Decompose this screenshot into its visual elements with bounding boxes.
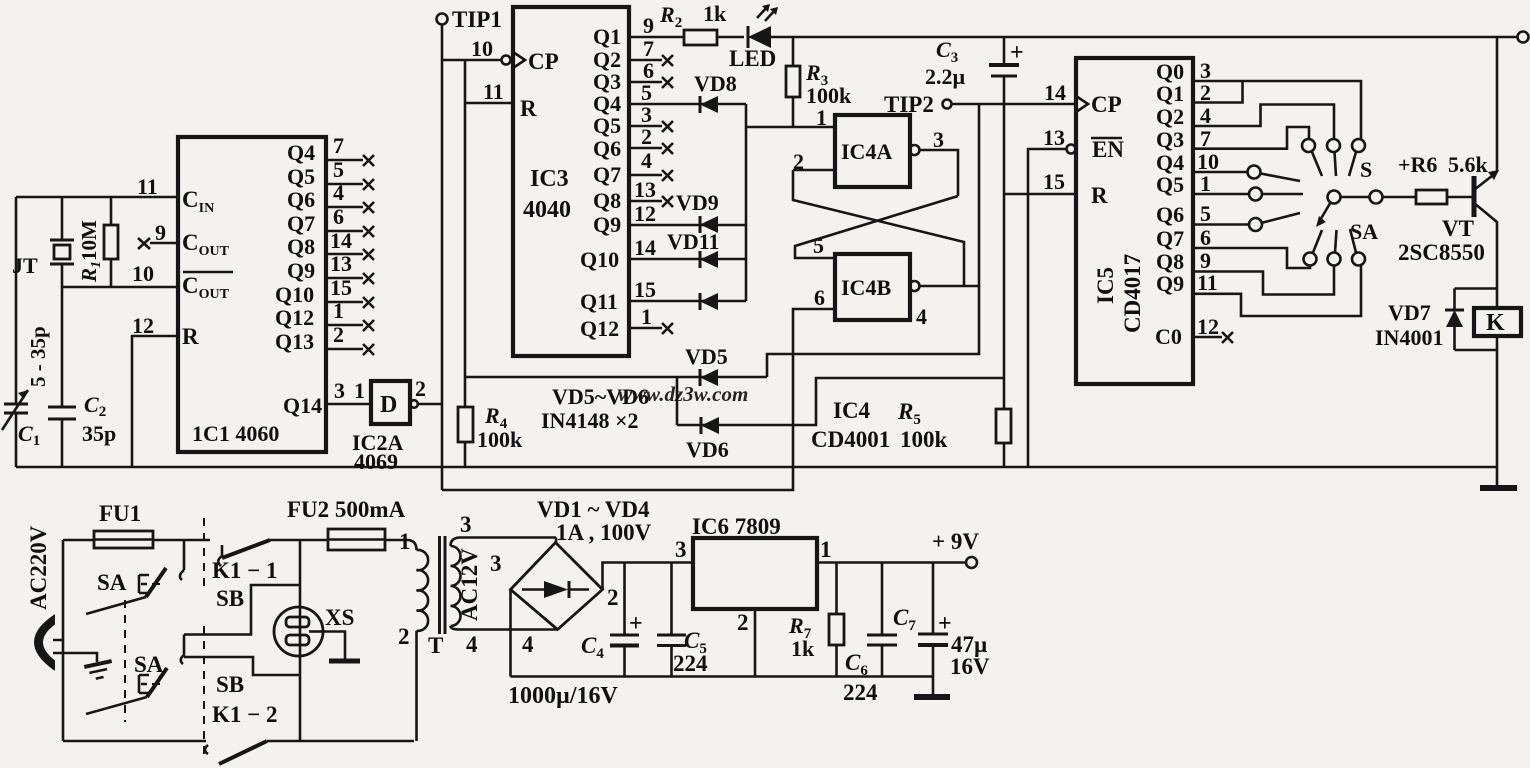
svg-text:JT: JT <box>12 253 38 278</box>
stub Q5 unconnected <box>629 125 662 128</box>
wire: Q4 pin10 to left contact 1 <box>1193 171 1247 174</box>
svg-text:Q6: Q6 <box>287 187 315 212</box>
diode VD6 <box>676 377 679 425</box>
wire: +9V top rail from LED to right terminal <box>771 36 1517 39</box>
svg-text:12: 12 <box>132 313 154 338</box>
svg-text:100k: 100k <box>900 427 948 452</box>
wire: pin 10 wire from JT/R1 to IC1 <box>62 286 178 289</box>
svg-text:S: S <box>1360 157 1372 182</box>
svg-text:Q13: Q13 <box>275 329 314 354</box>
wire: IC4A output to crossover <box>918 150 958 196</box>
wire: Q1 pin2 stub <box>1193 81 1243 103</box>
wire: Q3 pin7 to top-left contact <box>1193 127 1309 149</box>
wire: TIP1 vertical line down <box>441 25 444 490</box>
svg-text:C4: C4 <box>581 633 604 662</box>
svg-text:CIN: CIN <box>182 187 214 216</box>
diode VD8 on Q4 output <box>629 103 746 106</box>
wire: reset net vertical from CP wire down to VD5 line <box>464 60 467 407</box>
svg-text:Q14: Q14 <box>283 393 322 418</box>
svg-text:3: 3 <box>933 127 944 152</box>
svg-text:11: 11 <box>1197 270 1218 295</box>
wire: R pin 15 from C3/R5 node <box>1004 193 1076 196</box>
svg-text:2: 2 <box>333 322 344 347</box>
resistor R1 (10M) <box>104 197 118 287</box>
resistor R5 100k <box>1003 378 1006 409</box>
svg-text:COUT: COUT <box>182 230 230 259</box>
svg-text:1k: 1k <box>791 636 815 661</box>
NOR gate IC4A <box>835 115 910 187</box>
wire: Q14 to IC2A input <box>326 403 371 406</box>
svg-text:4: 4 <box>1200 103 1211 128</box>
power ground rail <box>511 675 934 678</box>
terminal +9V <box>966 557 977 568</box>
svg-text:9: 9 <box>643 13 654 38</box>
IC5 output labels Q0..Q9, C0 <box>1155 58 1219 349</box>
svg-text:IC4A: IC4A <box>841 139 892 164</box>
mechanical link K1/SB (dashed) <box>203 518 205 588</box>
svg-text:Q12: Q12 <box>275 305 314 330</box>
earth connection of plug <box>63 653 97 662</box>
LED light emission arrows <box>757 6 776 21</box>
stub Q2 unconnected <box>629 59 662 62</box>
svg-text:VD8: VD8 <box>694 71 737 96</box>
svg-text:12: 12 <box>1197 314 1219 339</box>
transformer core <box>440 536 446 634</box>
svg-text:C6: C6 <box>845 650 868 679</box>
NOR gate IC4B <box>835 254 910 320</box>
relay contact K1-1 <box>218 556 222 566</box>
IC5 CD4017 body <box>1076 58 1193 384</box>
diode on Q11 output <box>629 300 746 303</box>
svg-text:Q10: Q10 <box>275 282 314 307</box>
wire: IC6 pin2 to ground rail <box>754 609 757 677</box>
svg-text:IN4001: IN4001 <box>1375 325 1443 350</box>
svg-text:224: 224 <box>673 651 708 676</box>
wire: TIP1 line to IC3 CP <box>442 59 501 62</box>
svg-text:IC4B: IC4B <box>841 275 891 300</box>
svg-text:C0: C0 <box>1155 324 1182 349</box>
svg-text:FU2 500mA: FU2 500mA <box>287 497 406 522</box>
svg-text:AC12V: AC12V <box>457 548 482 621</box>
svg-text:+: + <box>629 611 643 637</box>
svg-text:100k: 100k <box>477 427 523 452</box>
ground (relay) <box>1496 467 1499 487</box>
svg-text:VD6: VD6 <box>686 437 729 462</box>
svg-text:C2: C2 <box>84 392 106 420</box>
regulator IC6 7809 <box>693 538 817 609</box>
diode VD7 IN4001 across relay <box>1445 289 1497 351</box>
fuse FU1 <box>63 539 94 542</box>
svg-text:4069: 4069 <box>354 449 398 474</box>
svg-text:IC3: IC3 <box>530 166 569 192</box>
IC3 output pin labels Q1..Q12 <box>580 13 656 341</box>
IC1 outputs Q4..Q13 with pin numbers and x marks <box>275 133 374 355</box>
svg-text:1: 1 <box>816 105 827 130</box>
svg-text:2: 2 <box>607 585 619 610</box>
svg-text:R110M: R110M <box>77 220 104 283</box>
svg-text:+: + <box>1010 40 1024 66</box>
svg-text:4040: 4040 <box>523 197 571 223</box>
svg-text:IC5: IC5 <box>1093 267 1118 304</box>
relay K coil <box>1474 308 1521 336</box>
svg-text:1000µ/16V: 1000µ/16V <box>508 683 618 709</box>
LED <box>717 36 744 39</box>
wire: left vertical rail of oscillator loop <box>15 197 18 467</box>
svg-text:4: 4 <box>522 632 534 657</box>
svg-text:1: 1 <box>333 298 344 323</box>
svg-text:2: 2 <box>415 376 426 401</box>
svg-text:R5: R5 <box>897 399 921 428</box>
svg-text:D: D <box>380 392 397 418</box>
svg-text:Q7: Q7 <box>287 211 315 236</box>
svg-text:11: 11 <box>483 79 504 104</box>
wire: bridge minus to power ground rail <box>509 590 512 677</box>
svg-text:Q5: Q5 <box>287 164 315 189</box>
svg-text:4: 4 <box>641 148 652 173</box>
wire: pin 11 R of IC3 <box>465 102 513 105</box>
svg-text:IC4: IC4 <box>833 398 871 423</box>
svg-text:IN4148 ×2: IN4148 ×2 <box>541 408 639 433</box>
svg-text:+ 9V: + 9V <box>932 529 979 554</box>
wire: crossover diagonal IC4B out4 to IC4A in2 <box>793 170 964 286</box>
svg-text:224: 224 <box>843 680 878 705</box>
wire: Q7 pin6 to bottom-left contact <box>1193 248 1310 268</box>
svg-text:15: 15 <box>330 275 352 300</box>
diode VD11 on Q10 output <box>629 258 746 261</box>
svg-text:SB: SB <box>216 586 244 611</box>
svg-text:2SC8550: 2SC8550 <box>1398 240 1485 265</box>
svg-text:2.2µ: 2.2µ <box>925 64 966 89</box>
svg-text:C3: C3 <box>936 37 958 66</box>
IC3 4040 body <box>513 7 629 356</box>
svg-text:13: 13 <box>634 177 656 202</box>
svg-text:Q12: Q12 <box>580 316 619 341</box>
svg-text:5.6k: 5.6k <box>1448 152 1489 177</box>
svg-text:CD4017: CD4017 <box>1120 254 1145 333</box>
terminal TIP2 <box>943 100 952 109</box>
svg-text:13: 13 <box>330 251 352 276</box>
wire: IC4B output to CP line and to VD5 path <box>767 286 979 377</box>
mechanical link SA (dashed) <box>124 600 126 722</box>
svg-text:6: 6 <box>333 204 344 229</box>
svg-text:Q1: Q1 <box>1156 81 1184 106</box>
stub Q12 unconnected <box>629 327 662 330</box>
svg-text:TIP2: TIP2 <box>884 92 934 117</box>
rotary switch SA contacts <box>1248 139 1383 266</box>
svg-text:4: 4 <box>916 304 927 329</box>
capacitor C4 1000u/16V <box>623 563 626 636</box>
svg-text:2: 2 <box>398 624 410 649</box>
svg-text:2: 2 <box>737 610 749 635</box>
IC1 4060 body <box>178 137 326 452</box>
wire: wiper to R6 <box>1341 196 1417 199</box>
svg-text:14: 14 <box>634 235 656 260</box>
svg-text:R: R <box>1091 183 1108 208</box>
svg-text:2: 2 <box>641 124 652 149</box>
svg-text:SA: SA <box>1350 219 1378 244</box>
svg-text:14: 14 <box>330 228 352 253</box>
fuse FU2 500mA <box>328 529 385 550</box>
svg-text:Q8: Q8 <box>593 188 621 213</box>
pushbutton SB upper (bypass path) <box>184 585 300 635</box>
switch SA upper pole <box>183 540 186 570</box>
svg-text:1: 1 <box>399 529 411 554</box>
svg-text:Q7: Q7 <box>593 162 621 187</box>
capacitor C6 224 <box>881 563 884 636</box>
svg-text:4: 4 <box>333 180 344 205</box>
svg-text:LED: LED <box>729 46 776 71</box>
svg-text:VT: VT <box>1442 216 1474 241</box>
svg-text:10: 10 <box>471 36 493 61</box>
svg-text:Q3: Q3 <box>1156 127 1184 152</box>
svg-text:35p: 35p <box>82 421 116 446</box>
inverter IC2A 4069 <box>354 376 426 424</box>
node: CP bubble and clock triangle of IC3 <box>502 56 511 65</box>
pushbutton SB lower (bypass path) <box>184 657 300 675</box>
switch contact springs <box>1261 152 1357 253</box>
switch SA lower pole <box>147 668 167 697</box>
wire: emitter to +9V terminal line <box>1496 37 1499 172</box>
svg-text:TIP1: TIP1 <box>452 7 502 32</box>
svg-text:R2: R2 <box>659 2 682 31</box>
svg-text:FU1: FU1 <box>99 501 141 526</box>
svg-text:6: 6 <box>814 285 825 310</box>
stub Q6 unconnected <box>629 147 662 150</box>
wire: EN pin 13 tied to ground rail <box>1067 145 1076 154</box>
svg-text:9: 9 <box>155 220 166 245</box>
terminal TIP1 <box>437 14 448 25</box>
svg-text:5: 5 <box>813 233 824 258</box>
transformer secondary winding <box>451 538 557 547</box>
svg-text:100k: 100k <box>806 83 852 108</box>
diode VD9 on Q9 output <box>629 224 746 227</box>
wire: +9V output <box>817 561 966 564</box>
resistor R7 1k <box>835 563 838 615</box>
stub Q8 unconnected <box>629 200 662 203</box>
switch wiper with arrow <box>1328 191 1341 204</box>
svg-text:Q9: Q9 <box>1156 271 1184 296</box>
svg-text:1: 1 <box>354 378 365 403</box>
svg-text:VD1 ~ VD4: VD1 ~ VD4 <box>537 497 650 522</box>
svg-text:15: 15 <box>1043 169 1065 194</box>
svg-text:15: 15 <box>634 277 656 302</box>
svg-text:14: 14 <box>1044 80 1066 105</box>
svg-text:AC220V: AC220V <box>26 525 51 610</box>
wire: Q6 pin5 to left contact 3 <box>1193 223 1249 226</box>
svg-text:Q5: Q5 <box>1156 172 1184 197</box>
wire: crossover diagonal output3 to IC4B in5 <box>795 196 958 258</box>
wire: OR bus jog to R3 foot and IC4A pin1 <box>746 126 835 129</box>
wire: bridge plus to 12V rail <box>603 563 694 590</box>
ground (power section) <box>914 694 950 700</box>
svg-text:3: 3 <box>675 537 687 562</box>
stub C0 unconnected <box>1193 336 1222 339</box>
svg-text:SA: SA <box>134 652 164 677</box>
terminal +9V top right <box>1518 32 1529 43</box>
svg-text:Q2: Q2 <box>1156 104 1184 129</box>
svg-text:16V: 16V <box>950 654 990 679</box>
svg-text:1A , 100V: 1A , 100V <box>556 520 652 545</box>
capacitor C2 (35p) <box>48 287 76 467</box>
diode VD5 <box>465 376 767 379</box>
stub Q7 unconnected <box>629 174 662 177</box>
svg-text:VD7: VD7 <box>1388 300 1431 325</box>
svg-text:1: 1 <box>1200 171 1211 196</box>
svg-text:4: 4 <box>466 632 478 657</box>
svg-text:R: R <box>182 324 199 349</box>
svg-text:Q10: Q10 <box>580 247 619 272</box>
socket XS <box>299 540 302 741</box>
wire: Q0 pin3 to top-right contact <box>1193 81 1361 139</box>
node: IC5 clock triangle <box>1076 96 1088 112</box>
capacitor C7 47u/16V <box>932 563 935 635</box>
svg-text:CP: CP <box>528 49 559 74</box>
svg-text:7: 7 <box>1200 126 1211 151</box>
svg-text:Q11: Q11 <box>580 289 618 314</box>
svg-text:Q9: Q9 <box>287 258 315 283</box>
svg-text:VD5: VD5 <box>685 344 728 369</box>
wire: IC4A input 2 <box>793 169 835 172</box>
wire: pin 11 C_IN top wire <box>16 196 178 199</box>
wire: AC line vertical <box>62 540 65 741</box>
resistor R2 1k <box>629 36 684 39</box>
wire: Q8 pin9 to bottom-middle contact <box>1193 266 1334 295</box>
svg-text:10: 10 <box>132 261 154 286</box>
svg-text:1k: 1k <box>703 1 727 26</box>
wire: TIP2 / CP wire to IC5 <box>952 103 1076 106</box>
svg-text:Q7: Q7 <box>1156 226 1184 251</box>
svg-text:Q9: Q9 <box>593 212 621 237</box>
svg-text:+: + <box>938 611 952 637</box>
wire: Q9 pin11 to bottom-right contact <box>1193 266 1361 316</box>
wire: pin 12 reset to ground rail <box>132 336 178 467</box>
svg-text:5 - 35p: 5 - 35p <box>26 326 50 387</box>
svg-text:Q1: Q1 <box>593 24 621 49</box>
svg-text:VD11: VD11 <box>667 229 720 254</box>
svg-text:XS: XS <box>325 605 354 630</box>
svg-text:3: 3 <box>334 378 345 403</box>
svg-text:Q6: Q6 <box>593 136 621 161</box>
svg-text:Q4: Q4 <box>287 140 315 165</box>
svg-text:CP: CP <box>1091 92 1122 117</box>
resistor R4 100k <box>458 407 473 442</box>
svg-text:1C1 4060: 1C1 4060 <box>192 421 279 446</box>
bridge rectifier VD1~VD4 <box>511 543 603 630</box>
resistor R3 100k <box>792 37 795 66</box>
transformer T primary winding <box>385 540 417 550</box>
svg-text:C1: C1 <box>18 421 40 449</box>
wire: diode-OR bus vertical <box>745 104 748 301</box>
svg-text:K1 − 1: K1 − 1 <box>212 558 278 583</box>
svg-text:1: 1 <box>641 304 652 329</box>
svg-text:COUT: COUT <box>182 273 230 302</box>
transistor VT 2SC8550 <box>1474 170 1499 308</box>
svg-text:K: K <box>1486 310 1505 336</box>
wire: C3/R5 node vertical <box>1003 194 1006 378</box>
svg-text:Q6: Q6 <box>1156 202 1184 227</box>
svg-text:6: 6 <box>1200 225 1211 250</box>
capacitor C1 (variable 5-35p) <box>2 390 28 430</box>
svg-text:SA: SA <box>97 570 127 595</box>
svg-text:R: R <box>520 96 537 121</box>
svg-text:+R6: +R6 <box>1398 152 1437 177</box>
svg-text:T: T <box>428 633 443 658</box>
svg-text:5: 5 <box>333 157 344 182</box>
stub Q3 unconnected <box>629 81 662 84</box>
capacitor C5 224 <box>670 563 673 636</box>
svg-text:www.dz3w.com: www.dz3w.com <box>618 382 748 406</box>
svg-text:12: 12 <box>634 201 656 226</box>
svg-text:3: 3 <box>490 551 502 576</box>
chassis ground of XS <box>323 632 345 661</box>
AC plug <box>35 616 54 669</box>
svg-text:K1 − 2: K1 − 2 <box>212 702 278 727</box>
svg-text:13: 13 <box>1043 125 1065 150</box>
resistor R6 5.6k <box>1416 190 1447 204</box>
svg-text:Q8: Q8 <box>287 234 315 259</box>
wire: IC2A output to TIP1 line <box>418 403 443 406</box>
wire: Q5 pin1 to left contact 2 <box>1193 193 1249 196</box>
svg-text:CD4001: CD4001 <box>811 427 890 452</box>
SECTIONS INSERTED BELOW <box>2 197 1497 467</box>
svg-text:11: 11 <box>137 174 158 199</box>
wire: IC4B input 6 from TIP1 line <box>442 309 835 490</box>
wire: Q2 pin4 to top-middle contact <box>1193 105 1334 140</box>
svg-text:1: 1 <box>820 537 832 562</box>
wire: bottom ground rail (full width) <box>16 466 1497 469</box>
svg-text:SB: SB <box>216 672 244 697</box>
svg-text:7: 7 <box>333 133 344 158</box>
svg-text:Q5: Q5 <box>593 113 621 138</box>
crystal JT <box>50 197 74 287</box>
svg-text:EN: EN <box>1092 137 1124 162</box>
svg-text:IC6 7809: IC6 7809 <box>692 514 781 539</box>
svg-text:VD9: VD9 <box>676 190 719 215</box>
capacitor C3 2.2u (from +9V rail) <box>1003 37 1006 65</box>
svg-text:5: 5 <box>1200 201 1211 226</box>
svg-text:3: 3 <box>460 512 472 537</box>
svg-text:C7: C7 <box>893 605 916 634</box>
